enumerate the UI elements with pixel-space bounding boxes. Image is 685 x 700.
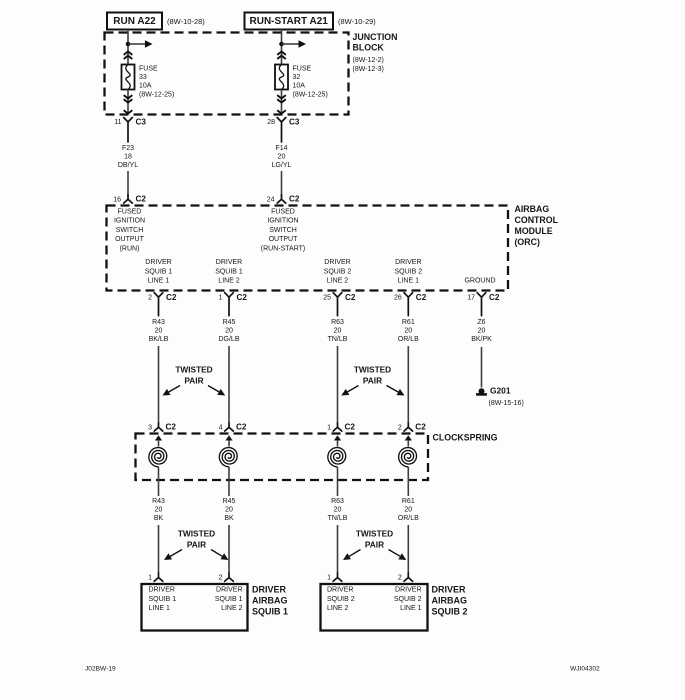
svg-text:DRIVER: DRIVER <box>395 259 421 266</box>
chevron down fuse 32 <box>277 95 286 103</box>
svg-text:F14: F14 <box>275 145 287 152</box>
coil clockspring 1 <box>149 448 167 467</box>
connector 4 C2 (clockspring) <box>219 423 247 432</box>
svg-text:RUN-START A21: RUN-START A21 <box>250 16 329 27</box>
wire squib lower <box>407 525 409 573</box>
label J02BW-19 <box>85 666 116 673</box>
svg-text:DRIVER: DRIVER <box>149 587 175 594</box>
connector squib pin 2 <box>398 573 413 582</box>
label DRIVER SQUIB 2 LINE 1 (squib box) <box>394 587 422 613</box>
svg-text:25: 25 <box>323 295 331 302</box>
svg-text:2: 2 <box>398 575 402 582</box>
connector 2 C2 (ORC output) <box>148 293 177 316</box>
label TWISTED PAIR lower-right <box>356 529 393 550</box>
svg-text:FUSE: FUSE <box>139 66 158 73</box>
wire squib upper <box>407 346 409 423</box>
svg-text:(8W-12-25): (8W-12-25) <box>139 92 174 99</box>
box driver airbag squib 1 <box>142 584 248 631</box>
svg-text:TWISTED: TWISTED <box>354 365 391 375</box>
svg-text:1: 1 <box>327 575 331 582</box>
svg-text:BK/LB: BK/LB <box>149 336 169 343</box>
arrow into clockspring 2 <box>225 435 232 446</box>
arrow twisted upper-right-a <box>341 386 358 396</box>
svg-text:FUSED: FUSED <box>118 209 142 216</box>
arrow twisted upper-right-b <box>387 386 405 396</box>
label WJI04302 <box>570 666 600 673</box>
label FUSE 32 10A <box>293 66 328 99</box>
node junction A21 <box>279 42 284 47</box>
svg-text:MODULE: MODULE <box>515 226 553 236</box>
label JUNCTION BLOCK <box>353 32 398 73</box>
svg-text:C2: C2 <box>416 293 427 302</box>
wire F23 lower <box>127 171 129 196</box>
svg-text:TN/LB: TN/LB <box>328 336 348 343</box>
svg-text:20: 20 <box>155 328 163 335</box>
svg-text:AIRBAG: AIRBAG <box>432 595 468 605</box>
svg-text:1: 1 <box>219 295 223 302</box>
label DRIVER SQUIB 1 LINE 2 <box>215 259 243 285</box>
svg-text:20: 20 <box>334 328 342 335</box>
wire below coil <box>337 467 339 496</box>
svg-text:FUSED: FUSED <box>271 209 295 216</box>
svg-text:C3: C3 <box>136 118 147 127</box>
svg-text:R45: R45 <box>223 319 236 326</box>
connector 24 C2 <box>267 195 300 204</box>
label TWISTED PAIR lower-left <box>178 529 215 550</box>
svg-text:C2: C2 <box>345 423 356 432</box>
svg-text:OR/LB: OR/LB <box>398 336 419 343</box>
svg-text:SQUIB 2: SQUIB 2 <box>394 596 422 603</box>
svg-text:32: 32 <box>293 74 301 81</box>
svg-text:PAIR: PAIR <box>365 540 384 550</box>
svg-text:20: 20 <box>404 328 412 335</box>
label G201 <box>489 386 524 408</box>
wire F14 lower <box>281 171 283 196</box>
connector 16 C2 <box>113 195 146 204</box>
svg-text:PAIR: PAIR <box>363 376 382 386</box>
connector squib pin 1 <box>327 573 342 582</box>
svg-text:LINE 1: LINE 1 <box>398 278 420 285</box>
svg-text:18: 18 <box>124 154 132 161</box>
svg-text:1: 1 <box>148 575 152 582</box>
arrow twisted lower-right-a <box>343 550 361 561</box>
svg-text:DRIVER: DRIVER <box>327 587 353 594</box>
wire below coil <box>407 467 409 496</box>
label TWISTED PAIR upper-left <box>175 365 212 386</box>
label R45 20 DG/LB <box>218 319 239 343</box>
svg-text:DRIVER: DRIVER <box>252 585 287 595</box>
wire below coil <box>228 467 230 496</box>
svg-text:LINE 1: LINE 1 <box>400 605 422 612</box>
chevron up fuse 32 <box>277 52 286 60</box>
arrow twisted lower-left-a <box>164 550 182 561</box>
svg-text:20: 20 <box>278 154 286 161</box>
label FUSED IGNITION SWITCH OUTPUT (RUN) <box>114 209 145 253</box>
svg-text:G201: G201 <box>490 386 511 396</box>
arrow into clockspring 3 <box>334 435 341 446</box>
svg-text:LINE 2: LINE 2 <box>221 605 243 612</box>
wire squib upper <box>158 346 160 423</box>
label FUSE 33 10A <box>139 66 174 99</box>
svg-text:OUTPUT: OUTPUT <box>269 236 299 243</box>
label DRIVER SQUIB 2 LINE 2 <box>324 259 352 285</box>
label TWISTED PAIR upper-right <box>354 365 391 386</box>
connector 3 C2 (clockspring) <box>148 423 176 432</box>
svg-text:DRIVER: DRIVER <box>324 259 350 266</box>
svg-text:20: 20 <box>225 328 233 335</box>
wire run A21 to fuse 32 <box>281 30 283 65</box>
svg-text:SQUIB 1: SQUIB 1 <box>215 596 243 603</box>
svg-text:C2: C2 <box>237 293 248 302</box>
svg-text:2: 2 <box>398 425 402 432</box>
connector 2 C2 (clockspring) <box>398 423 426 432</box>
label R43 20 BK (lower) <box>152 498 165 522</box>
chevron exit junction block A <box>124 110 133 113</box>
svg-text:TWISTED: TWISTED <box>356 529 393 539</box>
svg-text:OUTPUT: OUTPUT <box>115 236 145 243</box>
svg-text:C3: C3 <box>289 118 300 127</box>
svg-text:R61: R61 <box>402 498 415 505</box>
svg-text:SQUIB 1: SQUIB 1 <box>149 596 177 603</box>
wire squib upper <box>228 346 230 423</box>
svg-text:SQUIB 2: SQUIB 2 <box>327 596 355 603</box>
fuse 33 <box>122 65 135 90</box>
airbag control module <box>107 206 509 291</box>
svg-text:(8W-12-2): (8W-12-2) <box>353 57 384 64</box>
wire squib lower <box>228 525 230 573</box>
label FUSED IGNITION SWITCH OUTPUT (RUN-START) <box>261 209 305 253</box>
arrow twisted upper-left-b <box>208 386 225 396</box>
wire run A22 to fuse 33 <box>127 30 129 65</box>
connector 1 C2 (ORC output) <box>219 293 248 316</box>
label Z6 20 BK/PK <box>471 319 492 343</box>
svg-text:SQUIB 1: SQUIB 1 <box>215 268 243 275</box>
svg-text:C2: C2 <box>489 293 500 302</box>
svg-text:C2: C2 <box>415 423 426 432</box>
svg-text:28: 28 <box>267 119 275 126</box>
svg-text:RUN A22: RUN A22 <box>113 16 156 27</box>
wire squib lower <box>158 525 160 573</box>
svg-text:LINE 1: LINE 1 <box>148 278 170 285</box>
wire below coil <box>158 467 160 496</box>
svg-text:20: 20 <box>225 507 233 514</box>
svg-text:24: 24 <box>267 197 275 204</box>
svg-text:TWISTED: TWISTED <box>175 365 212 375</box>
connector 25 C2 (ORC output) <box>323 293 356 316</box>
svg-text:2: 2 <box>219 575 223 582</box>
svg-text:SQUIB 1: SQUIB 1 <box>145 268 173 275</box>
arrow feed branch A22 <box>128 40 153 47</box>
svg-text:SWITCH: SWITCH <box>116 227 144 234</box>
label R45 20 BK (lower) <box>223 498 236 522</box>
svg-text:(RUN): (RUN) <box>120 245 140 252</box>
svg-text:(RUN-START): (RUN-START) <box>261 245 305 252</box>
svg-text:SQUIB 2: SQUIB 2 <box>432 606 468 616</box>
svg-text:SQUIB 2: SQUIB 2 <box>324 268 352 275</box>
svg-text:C2: C2 <box>289 195 300 204</box>
svg-text:LINE 2: LINE 2 <box>327 605 349 612</box>
svg-text:(8W-10-28): (8W-10-28) <box>167 17 205 26</box>
fuse 32 <box>275 65 288 90</box>
svg-text:R63: R63 <box>331 319 344 326</box>
svg-text:10A: 10A <box>293 83 306 90</box>
label R43 20 BK/LB <box>149 319 169 343</box>
svg-text:DB/YL: DB/YL <box>118 162 138 169</box>
arrow twisted lower-right-b <box>389 550 407 561</box>
label DRIVER AIRBAG SQUIB 1 <box>252 585 288 617</box>
arrow twisted lower-left-b <box>211 550 229 561</box>
svg-text:CLOCKSPRING: CLOCKSPRING <box>433 433 498 443</box>
svg-text:SQUIB 1: SQUIB 1 <box>252 606 288 616</box>
svg-text:20: 20 <box>478 328 486 335</box>
svg-text:(ORC): (ORC) <box>515 237 540 247</box>
label R61 20 OR/LB (lower) <box>398 498 419 522</box>
svg-text:PAIR: PAIR <box>184 376 203 386</box>
coil clockspring 4 <box>399 448 417 467</box>
label GROUND <box>464 278 495 285</box>
arrow into clockspring 1 <box>155 435 162 446</box>
svg-text:26: 26 <box>394 295 402 302</box>
chevron exit junction block B <box>277 110 286 113</box>
svg-text:F23: F23 <box>122 145 134 152</box>
connector 11 C3 <box>114 118 146 143</box>
box RUN A22 <box>107 13 162 30</box>
svg-text:SWITCH: SWITCH <box>269 227 297 234</box>
label DRIVER SQUIB 2 LINE 2 (squib box) <box>327 587 355 613</box>
box RUN-START A21 <box>245 13 334 30</box>
svg-text:FUSE: FUSE <box>293 66 312 73</box>
svg-text:LG/YL: LG/YL <box>272 162 292 169</box>
connector 28 C3 <box>267 118 300 143</box>
svg-text:3: 3 <box>148 425 152 432</box>
svg-text:LINE 2: LINE 2 <box>218 278 240 285</box>
svg-text:C2: C2 <box>136 195 147 204</box>
wire ground Z6 <box>481 347 483 388</box>
svg-text:DRIVER: DRIVER <box>145 259 171 266</box>
svg-text:LINE 2: LINE 2 <box>327 278 349 285</box>
svg-text:1: 1 <box>327 425 331 432</box>
svg-text:J02BW-19: J02BW-19 <box>85 666 116 673</box>
svg-text:LINE 1: LINE 1 <box>149 605 171 612</box>
node junction A22 <box>126 42 131 47</box>
label (8W-10-29) <box>338 17 376 26</box>
connector 26 C2 (ORC output) <box>394 293 427 316</box>
svg-text:Z6: Z6 <box>477 319 485 326</box>
svg-text:C2: C2 <box>166 293 177 302</box>
arrow feed branch A21 <box>282 40 307 47</box>
svg-text:AIRBAG: AIRBAG <box>515 204 550 214</box>
chevron up fuse 33 <box>124 52 133 60</box>
svg-text:TWISTED: TWISTED <box>178 529 215 539</box>
svg-text:2: 2 <box>148 295 152 302</box>
svg-text:DRIVER: DRIVER <box>395 587 421 594</box>
svg-text:C2: C2 <box>236 423 247 432</box>
label DRIVER SQUIB 1 LINE 2 (squib box) <box>215 587 243 613</box>
svg-text:(8W-15-16): (8W-15-16) <box>489 400 524 407</box>
label DRIVER AIRBAG SQUIB 2 <box>432 585 468 617</box>
svg-text:DG/LB: DG/LB <box>218 336 239 343</box>
coil clockspring 3 <box>328 448 346 467</box>
svg-text:10A: 10A <box>139 83 152 90</box>
svg-text:OR/LB: OR/LB <box>398 515 419 522</box>
svg-text:IGNITION: IGNITION <box>114 218 145 225</box>
svg-text:(8W-12-3): (8W-12-3) <box>353 66 384 73</box>
coil clockspring 2 <box>219 448 237 467</box>
svg-text:DRIVER: DRIVER <box>216 587 242 594</box>
svg-text:4: 4 <box>219 425 223 432</box>
svg-text:C2: C2 <box>345 293 356 302</box>
chevron down fuse 33 <box>124 95 133 103</box>
label F14 20 LG/YL <box>272 145 292 169</box>
svg-text:BK/PK: BK/PK <box>471 336 492 343</box>
svg-text:AIRBAG: AIRBAG <box>252 595 288 605</box>
svg-text:(8W-12-25): (8W-12-25) <box>293 92 328 99</box>
svg-text:CONTROL: CONTROL <box>515 215 559 225</box>
svg-text:WJI04302: WJI04302 <box>570 666 600 673</box>
svg-text:BLOCK: BLOCK <box>353 43 385 53</box>
svg-text:IGNITION: IGNITION <box>267 218 298 225</box>
junction block <box>105 33 349 115</box>
label AIRBAG CONTROL MODULE (ORC) <box>515 204 559 247</box>
svg-text:R63: R63 <box>331 498 344 505</box>
connector squib pin 1 <box>148 573 163 582</box>
label R61 20 OR/LB <box>398 319 419 343</box>
svg-text:R45: R45 <box>223 498 236 505</box>
svg-text:C2: C2 <box>166 423 177 432</box>
wire squib upper <box>337 346 339 423</box>
connector squib pin 2 <box>219 573 234 582</box>
svg-text:R43: R43 <box>152 319 165 326</box>
svg-text:33: 33 <box>139 74 147 81</box>
svg-text:R43: R43 <box>152 498 165 505</box>
svg-text:GROUND: GROUND <box>464 278 495 285</box>
svg-text:20: 20 <box>404 507 412 514</box>
svg-text:R61: R61 <box>402 319 415 326</box>
svg-text:SQUIB 2: SQUIB 2 <box>394 268 422 275</box>
connector 17 C2 (ORC output) <box>467 293 500 316</box>
label (8W-10-28) <box>167 17 205 26</box>
label DRIVER SQUIB 1 LINE 1 (squib box) <box>149 587 177 613</box>
label R63 20 TN/LB <box>328 319 348 343</box>
svg-text:JUNCTION: JUNCTION <box>353 32 398 42</box>
svg-text:PAIR: PAIR <box>187 540 206 550</box>
label CLOCKSPRING <box>433 433 498 443</box>
wire squib lower <box>337 525 339 573</box>
wire fuse 33 out <box>127 90 129 114</box>
svg-text:(8W-10-29): (8W-10-29) <box>338 17 376 26</box>
svg-text:20: 20 <box>334 507 342 514</box>
svg-text:11: 11 <box>114 119 121 126</box>
box driver airbag squib 2 <box>321 584 428 631</box>
connector 1 C2 (clockspring) <box>327 423 355 432</box>
svg-text:TN/LB: TN/LB <box>328 515 348 522</box>
label DRIVER SQUIB 1 LINE 1 <box>145 259 173 285</box>
wire fuse 32 out <box>281 90 283 114</box>
ground G201 symbol <box>476 388 487 395</box>
svg-text:DRIVER: DRIVER <box>216 259 242 266</box>
svg-text:BK: BK <box>224 515 234 522</box>
svg-text:DRIVER: DRIVER <box>432 585 467 595</box>
label R63 20 TN/LB (lower) <box>328 498 348 522</box>
clockspring <box>136 434 429 481</box>
label DRIVER SQUIB 2 LINE 1 <box>394 259 422 285</box>
arrow into clockspring 4 <box>405 435 412 446</box>
label F23 18 DB/YL <box>118 145 138 169</box>
svg-text:BK: BK <box>154 515 164 522</box>
svg-text:17: 17 <box>467 295 475 302</box>
svg-text:20: 20 <box>155 507 163 514</box>
arrow twisted upper-left-a <box>163 386 181 396</box>
svg-text:16: 16 <box>113 197 121 204</box>
